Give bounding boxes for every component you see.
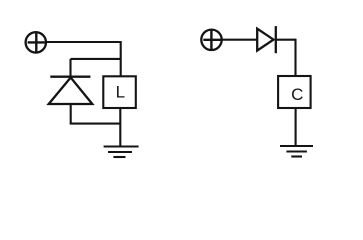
wire: left supply to corner above box L (46, 41, 121, 43)
wire: stub down to diode cathode (69, 59, 71, 77)
wire: vertical down to box L top (120, 41, 122, 76)
wire: vertical down to box C top (294, 39, 296, 76)
diode (left circuit, cathode up) (49, 77, 93, 104)
ground (left circuit) (104, 147, 139, 158)
wire: right supply to diode anode (222, 39, 257, 41)
wire: box L bottom to ground (119, 108, 121, 147)
wire: diode cathode to corner (276, 39, 296, 41)
box L (load) (103, 76, 136, 108)
svg-text:C: C (291, 85, 303, 104)
wire: branch horizontal toward diode (71, 58, 122, 60)
positive supply terminal (right circuit) (201, 30, 221, 50)
box C (load) (278, 76, 311, 108)
positive supply terminal (left circuit) (26, 32, 46, 52)
diode (right circuit, pointing right) (257, 26, 276, 53)
wire: box C bottom to ground (295, 108, 297, 146)
wire: diode anode down (70, 104, 72, 124)
wire: bottom horizontal from diode to box L branch (70, 123, 121, 125)
svg-text:L: L (116, 83, 125, 102)
ground (right circuit) (280, 146, 313, 157)
